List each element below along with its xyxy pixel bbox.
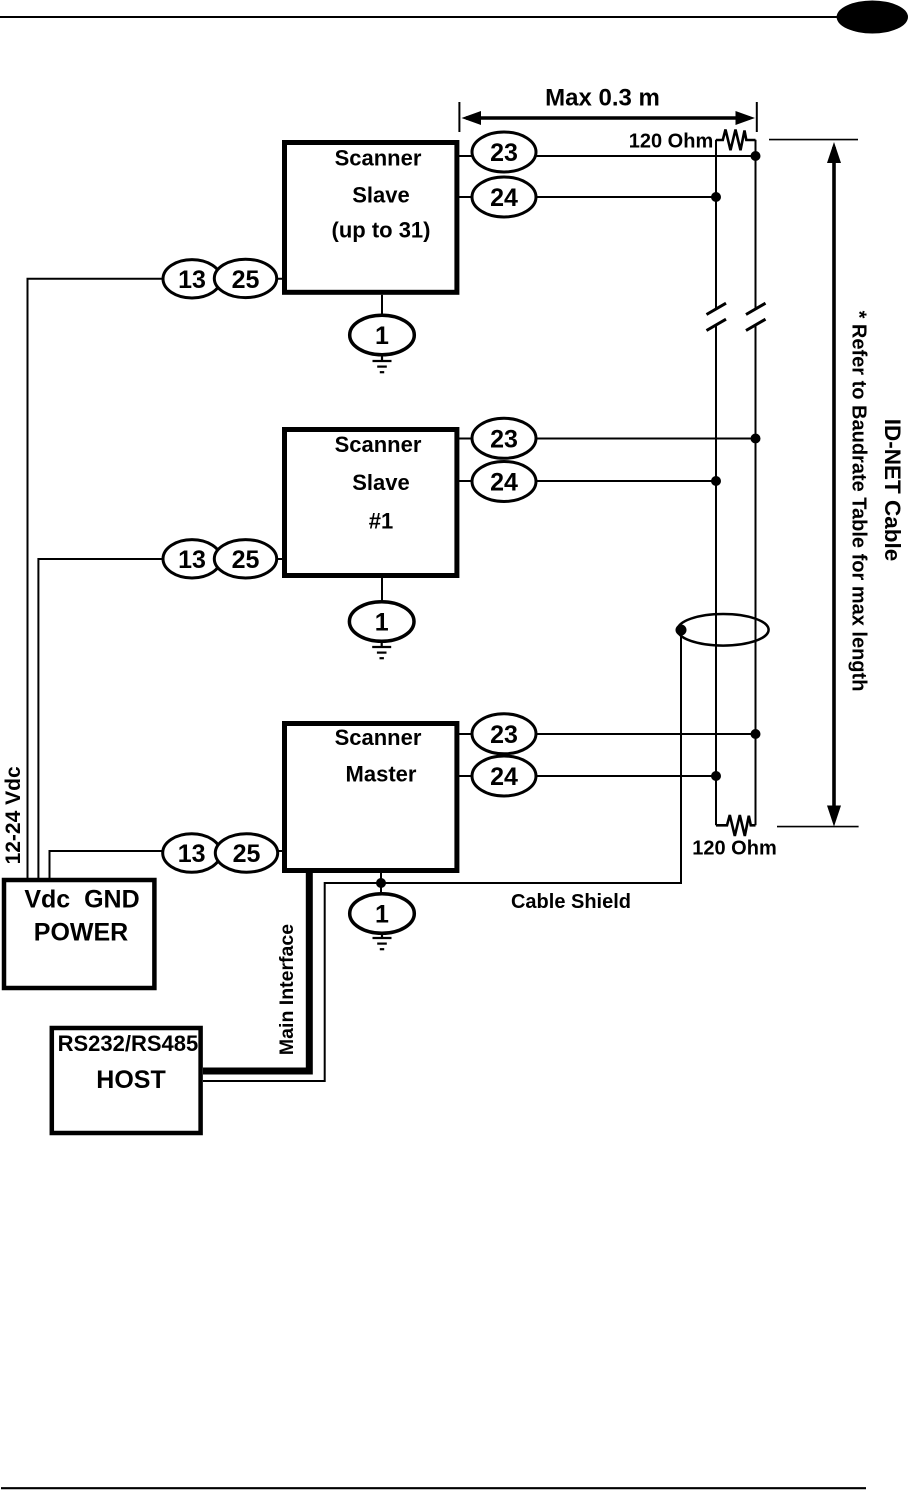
wire: slave1 pin23 to bus xyxy=(459,438,756,440)
wire: slave(up to 31) pin23 to bus xyxy=(459,155,756,157)
pin ellipse 23 slave1 xyxy=(472,418,536,458)
junction dot bus B slave1 pin24 xyxy=(711,476,721,486)
main interface thick cable xyxy=(203,873,309,1071)
bus wire ID-NET line B upper xyxy=(715,140,717,308)
pin ellipse 1 master xyxy=(350,894,415,934)
svg-text:Vdc GND: Vdc GND xyxy=(24,886,139,914)
svg-text:23: 23 xyxy=(490,721,518,749)
svg-text:25: 25 xyxy=(232,546,260,574)
pin ellipse 24 master xyxy=(472,756,536,796)
pin ellipse 25 slave1 xyxy=(214,540,276,578)
svg-text:ID-NET Cable: ID-NET Cable xyxy=(880,419,905,562)
svg-text:Scanner: Scanner xyxy=(335,432,422,457)
reference line top right xyxy=(769,139,858,141)
pin ellipse 25 slave top xyxy=(214,259,276,297)
svg-text:23: 23 xyxy=(490,425,518,453)
svg-text:(up to 31): (up to 31) xyxy=(332,218,431,243)
pin ellipse 1 slave1 xyxy=(349,602,414,642)
dimension arrow Max 0.3 m xyxy=(459,102,756,132)
svg-text:Slave: Slave xyxy=(352,470,410,495)
bus wire ID-NET line B lower xyxy=(715,326,717,825)
svg-text:Master: Master xyxy=(346,762,417,787)
pin ellipse 23 slave top xyxy=(472,132,536,172)
ground symbol slave top xyxy=(373,355,392,372)
vertical dimension arrow ID-NET length xyxy=(832,147,836,820)
svg-text:1: 1 xyxy=(375,609,389,637)
svg-text:24: 24 xyxy=(490,184,518,212)
svg-text:Scanner: Scanner xyxy=(335,146,422,171)
pin ellipse 13 master xyxy=(163,834,221,872)
junction dot bus A master pin23 xyxy=(751,729,761,739)
ground symbol master xyxy=(373,933,392,949)
svg-text:Main Interface: Main Interface xyxy=(276,924,298,1055)
wire: slave1 ground stub xyxy=(381,578,383,602)
header logo blob xyxy=(837,1,908,34)
svg-text:25: 25 xyxy=(232,266,260,294)
svg-text:12-24 Vdc: 12-24 Vdc xyxy=(2,766,25,864)
svg-text:RS232/RS485: RS232/RS485 xyxy=(58,1031,199,1056)
svg-text:#1: #1 xyxy=(369,509,393,534)
svg-text:1: 1 xyxy=(375,901,389,929)
resistor 120 Ohm bottom xyxy=(716,815,756,836)
pin ellipse 1 slave top xyxy=(350,315,415,355)
cable shield loop ellipse xyxy=(678,614,769,646)
pin ellipse 24 slave1 xyxy=(472,462,536,502)
wire: slave top ground stub xyxy=(381,295,383,316)
wire: slave1 pin13 to power rail xyxy=(38,559,282,878)
svg-text:HOST: HOST xyxy=(96,1066,165,1094)
svg-text:Slave: Slave xyxy=(352,183,410,208)
svg-text:Cable Shield: Cable Shield xyxy=(511,891,631,913)
break symbol on line B xyxy=(707,303,727,330)
svg-text:25: 25 xyxy=(233,840,261,868)
junction dot bus A slave top pin23 xyxy=(751,151,761,161)
power supply box xyxy=(4,880,154,988)
bus wire ID-NET line A lower xyxy=(755,326,757,825)
host box xyxy=(52,1028,201,1133)
svg-text:Scanner: Scanner xyxy=(335,725,422,750)
scanner slave (up to 31) box xyxy=(285,143,457,293)
wire: slave1 pin24 to bus xyxy=(459,480,716,482)
svg-text:23: 23 xyxy=(490,139,518,167)
wire: master pin13 to power box xyxy=(50,851,283,878)
junction dot bus B slave top pin24 xyxy=(711,192,721,202)
svg-text:24: 24 xyxy=(490,469,518,497)
wire: slave(up to 31) pin24 to bus xyxy=(459,196,716,198)
bus wire ID-NET line A upper xyxy=(755,140,757,308)
break symbol on line A xyxy=(746,303,766,330)
reference line bottom right xyxy=(777,826,859,828)
pin ellipse 24 slave top xyxy=(472,177,536,217)
svg-text:13: 13 xyxy=(178,840,206,868)
svg-text:120 Ohm: 120 Ohm xyxy=(692,837,776,859)
svg-text:POWER: POWER xyxy=(34,918,128,946)
pin ellipse 13 slave top xyxy=(163,260,221,298)
svg-text:Max 0.3 m: Max 0.3 m xyxy=(545,85,660,112)
resistor 120 Ohm top xyxy=(716,130,756,151)
wire: cable shield run xyxy=(203,630,681,1081)
footer rule line xyxy=(1,1487,866,1489)
svg-text:13: 13 xyxy=(178,546,206,574)
svg-text:120 Ohm: 120 Ohm xyxy=(629,131,713,153)
junction dot master shield xyxy=(376,878,386,888)
junction dot bus B master pin24 xyxy=(711,771,721,781)
ground symbol slave1 xyxy=(372,641,391,658)
svg-text:13: 13 xyxy=(178,266,206,294)
scanner master box xyxy=(285,724,457,871)
wire: master pin23 to bus xyxy=(459,733,756,735)
header rule line xyxy=(0,16,845,18)
pin ellipse 13 slave1 xyxy=(163,540,221,578)
wire: master ground stub xyxy=(380,873,382,894)
svg-text:* Refer to Baudrate Table for: * Refer to Baudrate Table for max length xyxy=(848,311,870,692)
scanner slave #1 box xyxy=(285,430,457,576)
svg-text:24: 24 xyxy=(490,763,518,791)
wire: slave(up to 31) pin13 to power rail xyxy=(28,279,283,878)
junction dot bus A slave1 pin23 xyxy=(751,434,761,444)
wire: master pin24 to bus xyxy=(459,775,716,777)
svg-text:1: 1 xyxy=(375,322,389,350)
pin ellipse 25 master xyxy=(215,834,277,872)
pin ellipse 23 master xyxy=(472,714,536,754)
junction dot shield loop xyxy=(676,625,687,636)
